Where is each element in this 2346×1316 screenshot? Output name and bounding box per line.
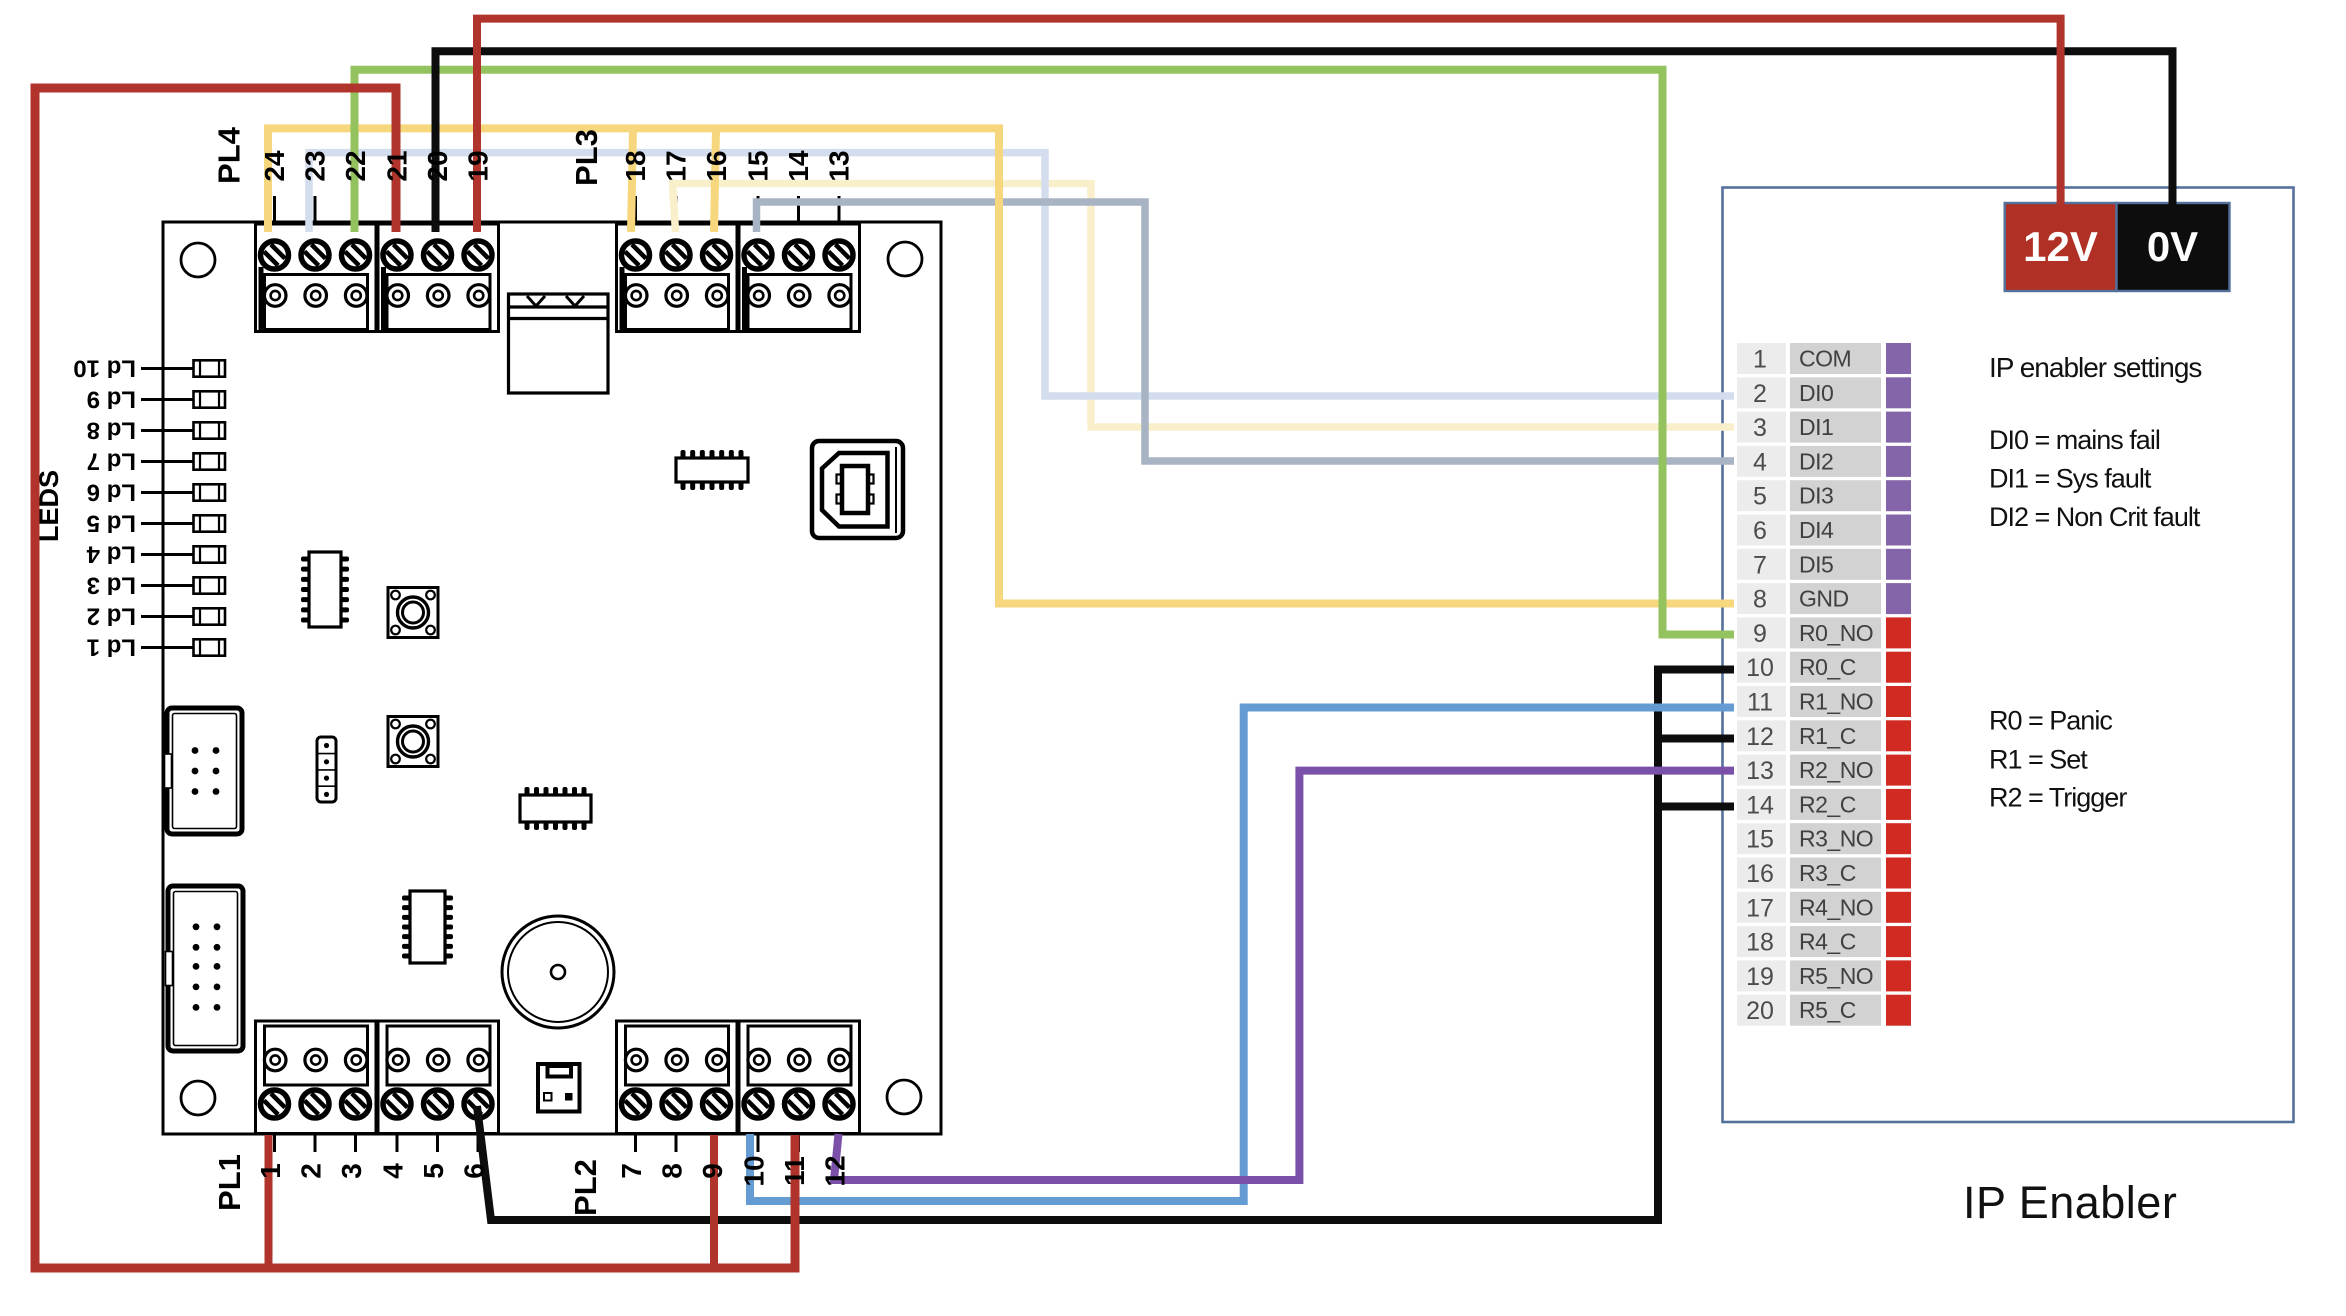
svg-text:17: 17: [1746, 894, 1774, 922]
LED Ld1: [87, 634, 225, 661]
svg-text:R2_C: R2_C: [1799, 791, 1856, 817]
terminal pin ticks PL4/PL3: [275, 196, 840, 243]
push button SW1: [388, 588, 438, 638]
IP enabler pin 16 R3_C: [1737, 858, 1911, 889]
svg-text:R1_NO: R1_NO: [1799, 689, 1873, 715]
svg-text:R5_C: R5_C: [1799, 997, 1856, 1023]
svg-text:13: 13: [824, 150, 855, 181]
USB-B connector J1: [812, 441, 903, 538]
LED Ld7: [87, 448, 225, 475]
svg-text:R4_NO: R4_NO: [1799, 894, 1873, 920]
LED Ld8: [87, 417, 225, 444]
svg-text:DI1 = Sys fault: DI1 = Sys fault: [1989, 464, 2152, 494]
svg-text:DI5: DI5: [1799, 551, 1833, 577]
svg-text:6: 6: [1753, 517, 1767, 545]
mounting hole bottom-right: [887, 1080, 921, 1114]
svg-text:LEDS: LEDS: [34, 470, 64, 542]
svg-text:9: 9: [1753, 620, 1767, 648]
svg-text:23: 23: [300, 150, 331, 181]
mounting hole top-right: [888, 242, 922, 276]
svg-text:DI4: DI4: [1799, 517, 1834, 543]
svg-text:R4_C: R4_C: [1799, 929, 1856, 955]
svg-text:12: 12: [820, 1155, 851, 1186]
IP enabler pin 6 DI4: [1737, 515, 1911, 546]
svg-text:R3_C: R3_C: [1799, 860, 1856, 886]
IC U4 vertical 14-pin: [402, 891, 453, 963]
LED Ld4: [86, 541, 225, 568]
terminal block PL4 pins 24-22: [256, 224, 377, 332]
svg-text:Ld 4: Ld 4: [86, 541, 136, 568]
svg-text:6: 6: [459, 1163, 490, 1179]
push button SW2: [388, 717, 438, 767]
svg-text:0V: 0V: [2147, 223, 2198, 270]
svg-text:15: 15: [1746, 826, 1774, 854]
box header J3 2x3: [165, 708, 243, 834]
svg-text:PL4: PL4: [212, 126, 247, 184]
svg-text:Ld 5: Ld 5: [87, 510, 136, 537]
svg-text:4: 4: [378, 1163, 409, 1179]
svg-text:PL3: PL3: [569, 129, 604, 186]
IP enabler pin 13 R2_NO: [1737, 755, 1911, 786]
wire red branch PL1.1: [265, 1135, 273, 1268]
IP enabler pin 20 R5_C: [1737, 995, 1911, 1026]
IP Enabler box: [1723, 188, 2294, 1123]
wire black branch R1_C: [1658, 735, 1734, 743]
svg-text:R0_NO: R0_NO: [1799, 620, 1873, 646]
svg-text:R0_C: R0_C: [1799, 654, 1856, 680]
wire black PL1.6 to R0_C R1_C R2_C: [477, 670, 1734, 1221]
wire black PL4.20 to 0V: [436, 51, 2173, 232]
LED Ld10: [73, 355, 225, 382]
IP enabler pin 11 R1_NO: [1737, 686, 1911, 717]
pin header J2 1x4: [317, 737, 336, 802]
IP enabler pin 2 DI0: [1737, 377, 1911, 408]
terminal block PL2 pins 7-9: [617, 1021, 738, 1134]
relay component below PL4: [509, 294, 609, 393]
svg-text:DI0 = mains fail: DI0 = mains fail: [1989, 425, 2160, 455]
svg-text:10: 10: [739, 1155, 770, 1186]
svg-text:9: 9: [697, 1163, 728, 1179]
svg-text:16: 16: [1746, 860, 1774, 888]
svg-text:R5_NO: R5_NO: [1799, 963, 1873, 989]
wire pale-yellow PL3.17 to DI1: [673, 184, 1735, 428]
wire red PL4.21 to PL1.1 PL2.9 PL2.11: [35, 88, 795, 1268]
IC U1 vertical 14-pin: [301, 552, 349, 627]
svg-text:17: 17: [661, 150, 692, 181]
svg-text:4: 4: [1753, 448, 1767, 476]
LED Ld3: [87, 572, 225, 599]
svg-text:2: 2: [1753, 380, 1767, 408]
svg-text:DI2: DI2: [1799, 448, 1833, 474]
svg-text:1: 1: [1753, 346, 1767, 374]
svg-text:15: 15: [743, 150, 774, 181]
power terminal 12V: [2005, 203, 2117, 291]
LED Ld9: [87, 386, 225, 413]
IP enabler pin 14 R2_C: [1737, 789, 1911, 820]
svg-text:R1_C: R1_C: [1799, 723, 1856, 749]
wire red PL4.19 to 12V: [477, 19, 2061, 232]
svg-text:12: 12: [1746, 723, 1774, 751]
terminal block PL1 pins 4-6: [378, 1021, 499, 1134]
svg-text:R1 = Set: R1 = Set: [1989, 745, 2088, 775]
svg-text:18: 18: [620, 150, 651, 181]
IC U3 horizontal 14-pin: [520, 787, 591, 830]
svg-text:COM: COM: [1799, 346, 1851, 372]
svg-text:PL2: PL2: [568, 1159, 603, 1216]
svg-text:19: 19: [463, 150, 494, 181]
IP enabler pin 18 R4_C: [1737, 926, 1911, 957]
terminal block PL3 pins 18-16: [617, 224, 738, 332]
svg-text:7: 7: [616, 1163, 647, 1179]
IP enabler pin 4 DI2: [1737, 446, 1911, 477]
svg-text:19: 19: [1746, 963, 1774, 991]
svg-text:Ld 9: Ld 9: [87, 386, 136, 413]
LED Ld5: [87, 510, 225, 537]
IP enabler pin 15 R3_NO: [1737, 823, 1911, 854]
svg-text:Ld 8: Ld 8: [87, 417, 136, 444]
svg-text:Ld 7: Ld 7: [87, 448, 136, 475]
svg-text:3: 3: [1753, 414, 1767, 442]
wire yellow branch PL3.18: [631, 128, 633, 232]
IP enabler pin 19 R5_NO: [1737, 960, 1911, 991]
svg-text:14: 14: [1746, 791, 1774, 819]
svg-text:22: 22: [340, 150, 371, 181]
wire red branch PL2.9: [710, 1135, 718, 1268]
LED Ld2: [87, 603, 225, 630]
connector J5 2-pin: [538, 1064, 580, 1112]
IP enabler pin 1 COM: [1737, 343, 1911, 374]
svg-text:1: 1: [255, 1163, 286, 1179]
svg-text:3: 3: [336, 1163, 367, 1179]
svg-text:14: 14: [783, 150, 814, 182]
terminal block PL1 pins 1-3: [256, 1021, 377, 1134]
svg-text:11: 11: [779, 1156, 810, 1186]
svg-text:24: 24: [259, 150, 290, 182]
svg-text:10: 10: [1746, 654, 1774, 682]
svg-text:20: 20: [1746, 997, 1774, 1025]
svg-text:DI0: DI0: [1799, 380, 1833, 406]
svg-text:Ld 1: Ld 1: [87, 634, 136, 661]
svg-text:DI3: DI3: [1799, 483, 1833, 509]
svg-text:PL1: PL1: [212, 1154, 247, 1211]
svg-text:11: 11: [1747, 689, 1773, 717]
wire purple PL2.12 to R2_NO: [834, 771, 1734, 1180]
svg-text:R0 = Panic: R0 = Panic: [1989, 706, 2112, 736]
svg-text:R3_NO: R3_NO: [1799, 826, 1873, 852]
svg-text:16: 16: [701, 150, 732, 181]
svg-text:2: 2: [296, 1163, 327, 1179]
IP enabler pin 10 R0_C: [1737, 652, 1911, 683]
IP enabler pin 8 GND: [1737, 583, 1911, 614]
svg-text:R2 = Trigger: R2 = Trigger: [1989, 783, 2127, 813]
svg-text:Ld 10: Ld 10: [73, 355, 136, 382]
svg-text:IP enabler settings: IP enabler settings: [1989, 352, 2201, 383]
mounting hole bottom-left: [181, 1081, 215, 1115]
terminal block PL2 pins 10-12: [739, 1021, 860, 1134]
PCB board outline: [163, 222, 941, 1134]
terminal pin ticks PL1/PL2: [275, 1116, 840, 1152]
wire blue PL2.10 to R1_NO: [750, 708, 1734, 1202]
svg-text:12V: 12V: [2023, 223, 2098, 270]
terminal block PL4 pins 21-19: [378, 224, 499, 332]
svg-text:Ld 2: Ld 2: [87, 603, 136, 630]
wire black branch R2_C: [1658, 803, 1734, 811]
wire green PL4.22 to R0_NO: [355, 70, 1735, 635]
svg-text:7: 7: [1753, 551, 1767, 579]
svg-text:DI1: DI1: [1799, 414, 1833, 440]
terminal block PL3 pins 15-13: [739, 224, 860, 332]
IP enabler pin 3 DI1: [1737, 412, 1911, 443]
IP enabler pin 9 R0_NO: [1737, 617, 1911, 648]
IP enabler pin 12 R1_C: [1737, 720, 1911, 751]
wire yellow branch PL3.16: [714, 128, 716, 232]
svg-text:21: 21: [382, 150, 413, 181]
svg-text:20: 20: [422, 150, 453, 181]
IP enabler pin 17 R4_NO: [1737, 892, 1911, 923]
IP enabler pin 7 DI5: [1737, 549, 1911, 580]
wire yellow PL4.24 PL3.18 PL3.16 to GND: [268, 128, 1734, 603]
svg-text:IP Enabler: IP Enabler: [1963, 1177, 2177, 1228]
svg-text:8: 8: [1753, 586, 1767, 614]
power terminal 0V: [2117, 203, 2230, 291]
IC U2 horizontal 14-pin: [676, 450, 748, 490]
svg-text:8: 8: [657, 1163, 688, 1179]
svg-text:Ld 3: Ld 3: [87, 572, 136, 599]
svg-text:13: 13: [1746, 757, 1774, 785]
svg-text:Ld 6: Ld 6: [87, 479, 136, 506]
buzzer BZ1: [502, 916, 614, 1028]
svg-text:R2_NO: R2_NO: [1799, 757, 1873, 783]
LED Ld6: [87, 479, 225, 506]
svg-text:GND: GND: [1799, 586, 1849, 612]
wire lavender PL4.23 to DI0: [309, 153, 1734, 396]
svg-text:5: 5: [1753, 483, 1767, 511]
mounting hole top-left: [181, 243, 215, 277]
svg-text:5: 5: [418, 1163, 449, 1179]
svg-text:DI2 = Non Crit fault: DI2 = Non Crit fault: [1989, 502, 2201, 532]
svg-text:18: 18: [1746, 929, 1774, 957]
box header J4 2x5: [166, 886, 244, 1051]
IP enabler pin 5 DI3: [1737, 480, 1911, 511]
wire grey PL3.15 to DI2: [757, 202, 1735, 461]
